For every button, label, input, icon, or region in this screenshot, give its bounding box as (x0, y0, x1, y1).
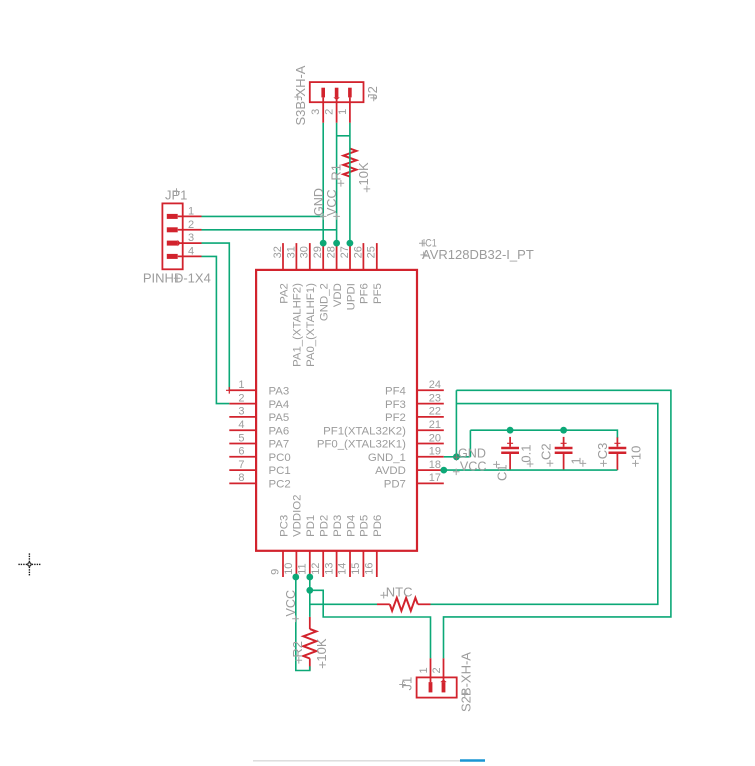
IC pin 8 (PC2) stub (229, 482, 256, 484)
IC pin 12 (PD2) stub (322, 551, 324, 577)
svg-text:S3B-XH-A: S3B-XH-A (293, 65, 308, 125)
IC pin 5 (PA7) stub (229, 443, 256, 445)
wire sense net to J1.1 (310, 590, 431, 658)
svg-text:30: 30 (299, 246, 311, 258)
svg-text:PA0_(XTALHF1): PA0_(XTALHF1) (305, 283, 317, 367)
svg-text:R2: R2 (290, 641, 305, 658)
JP1 pin 4 contact (167, 254, 178, 259)
svg-text:VDD: VDD (332, 283, 344, 307)
origin cross C2 value (580, 460, 587, 467)
origin cross JP1 (173, 188, 180, 195)
svg-text:VCC: VCC (460, 460, 487, 474)
svg-text:16: 16 (364, 563, 376, 575)
svg-text:4: 4 (188, 245, 194, 257)
wire capacitor GND top rail (470, 430, 617, 437)
svg-text:9: 9 (270, 569, 282, 575)
svg-text:3: 3 (310, 109, 322, 115)
svg-text:1: 1 (188, 205, 194, 217)
svg-text:2: 2 (431, 667, 443, 673)
IC pin 13 (PD3) stub (336, 551, 338, 577)
junction dot VCC at pin18 (440, 467, 447, 474)
svg-text:NTC: NTC (386, 584, 413, 599)
JP1 pin 4 stub (178, 255, 202, 257)
svg-text:28: 28 (326, 246, 338, 258)
origin cross VCC pin10 (292, 616, 299, 623)
NTC left lead (377, 603, 390, 605)
IC pin 3 (PA5) stub (229, 416, 256, 418)
capacitor C3 bottom lead (616, 454, 618, 470)
junction dot C1 top (507, 427, 514, 434)
svg-text:PC2: PC2 (269, 479, 291, 491)
origin cross R2 10K (319, 662, 326, 669)
origin cross C2 (547, 460, 554, 467)
wire VCC J2.2 to IC pin28 (336, 123, 338, 243)
svg-text:1: 1 (238, 379, 244, 391)
IC pin 23 (PF3) stub (417, 403, 444, 405)
IC pin 6 (PC0) stub (229, 456, 256, 458)
JP1 pin 2 contact (167, 227, 178, 232)
capacitor C2 bottom lead (563, 454, 565, 470)
JP1 pin 2 stub (178, 229, 202, 231)
origin cross value (420, 252, 427, 259)
resistor R2 bottom lead (309, 658, 311, 670)
J2 pin 2 contact (335, 88, 339, 98)
svg-text:20: 20 (429, 432, 441, 444)
origin cross R2 (296, 657, 303, 664)
svg-text:PC1: PC1 (269, 465, 291, 477)
svg-text:3: 3 (188, 232, 194, 244)
IC pin 7 (PC1) stub (229, 469, 256, 471)
svg-text:PA7: PA7 (269, 439, 290, 451)
IC pin 29 (GND_2) stub (322, 243, 324, 270)
svg-text:PD7: PD7 (384, 479, 406, 491)
svg-text:PF3: PF3 (385, 399, 406, 411)
svg-text:PD4: PD4 (345, 515, 357, 537)
svg-text:8: 8 (238, 472, 244, 484)
wire GND inner loop to NTC right (431, 404, 658, 605)
JP1 pin 1 stub (178, 215, 202, 217)
svg-text:S2B-XH-A: S2B-XH-A (459, 652, 474, 712)
svg-text:PC3: PC3 (278, 515, 290, 537)
connector JP1 body PINHD-1X4 (162, 203, 182, 269)
svg-text:VDDIO2: VDDIO2 (292, 494, 304, 536)
wire IC pin19 GND stub extension (444, 456, 471, 458)
capacitor C2 top lead (563, 437, 565, 447)
svg-text:PF5: PF5 (372, 283, 384, 304)
IC pin 31 (PA1_(XTALHF2)) stub (295, 243, 297, 270)
svg-text:3: 3 (238, 406, 244, 418)
IC pin 21 (PF1(XTAL32K2)) stub (417, 429, 444, 431)
IC pin 25 (PF5) stub (376, 243, 378, 270)
svg-text:10: 10 (628, 446, 643, 460)
wire riser to capacitor top rail (469, 430, 471, 457)
IC pin 2 (PA4) stub (229, 403, 256, 405)
svg-text:GND: GND (312, 188, 326, 216)
wire GND J2.3 to IC pin29 (322, 123, 324, 243)
IC pin 18 (AVDD) stub (417, 469, 444, 471)
svg-text:11: 11 (297, 563, 309, 574)
junction dot GND at IC pin29 (320, 240, 327, 247)
IC pin 14 (PD4) stub (349, 551, 351, 577)
origin cross C1 (493, 461, 500, 468)
origin cross IC1 (419, 240, 426, 247)
svg-text:7: 7 (238, 459, 244, 471)
svg-text:31: 31 (285, 246, 297, 258)
JP1 pin 3 stub (178, 242, 202, 244)
IC pin 24 (PF4) stub (417, 389, 444, 391)
IC pin 26 (PF6) stub (362, 243, 364, 270)
JP1 pin 1 contact (167, 214, 178, 219)
origin cross C1 value (527, 461, 534, 468)
J1 pin 2 contact (442, 682, 446, 692)
svg-text:UPDI: UPDI (345, 283, 357, 310)
IC pin 10 (VDDIO2) stub (295, 551, 297, 577)
resistor R1 (343, 149, 356, 177)
svg-text:PD2: PD2 (319, 515, 331, 537)
svg-text:24: 24 (429, 379, 441, 391)
junction dot sense branch (306, 587, 313, 594)
junction dot GND at pin19 (453, 453, 460, 460)
wire GND riser up (455, 390, 457, 457)
origin cross C3 (600, 460, 607, 467)
svg-text:26: 26 (352, 246, 364, 258)
capacitor C2 pin cross (561, 440, 567, 446)
capacitor C3 plates (609, 447, 627, 450)
capacitor C2 plates (555, 447, 573, 450)
origin cross GND supply over dot (453, 454, 460, 461)
NTC right lead (418, 603, 431, 605)
IC pin1 endpoint cross (226, 387, 233, 394)
svg-text:22: 22 (429, 406, 441, 418)
wire JP1.4 to IC pin2 (202, 256, 230, 403)
svg-text:PD5: PD5 (359, 515, 371, 537)
junction dot at IC pin11 (306, 574, 313, 581)
wire GND outer loop to J1.2 (444, 390, 671, 658)
svg-text:PA2: PA2 (278, 283, 290, 304)
svg-text:10K: 10K (314, 638, 329, 661)
JP1 pin 3 contact (167, 241, 178, 246)
IC pin 27 (UPDI) stub (349, 243, 351, 270)
IC pin 1 (PA3) stub (229, 389, 256, 391)
origin cross R1 10K (364, 186, 371, 193)
svg-text:GND: GND (458, 446, 486, 460)
wire UPDI J2.1 through R1 to IC pin27 (349, 123, 351, 243)
svg-text:PC0: PC0 (269, 452, 291, 464)
IC pin 30 (PA0_(XTALHF1)) stub (309, 243, 311, 270)
svg-text:PD6: PD6 (372, 515, 384, 537)
svg-text:VCC: VCC (284, 590, 298, 617)
IC pin 15 (PD5) stub (362, 551, 364, 577)
J2 pin 3 stub (322, 97, 324, 122)
wire JP1.1 to GND net (202, 215, 324, 217)
svg-text:4: 4 (238, 419, 244, 431)
junction dot C2 top (560, 427, 567, 434)
svg-text:PA3: PA3 (269, 385, 290, 397)
IC pin 19 (GND_1) stub (417, 456, 444, 458)
origin cross GND (320, 213, 327, 220)
svg-text:PF4: PF4 (385, 385, 406, 397)
origin cross S2B-XH-A (462, 690, 469, 697)
J2 pin 2 stub (336, 97, 338, 122)
svg-text:23: 23 (429, 392, 441, 404)
capacitor C3 top lead (616, 437, 618, 447)
svg-text:C3: C3 (595, 443, 610, 460)
svg-text:VCC: VCC (325, 189, 339, 216)
capacitor C3 pin cross (614, 440, 620, 446)
origin cross C3 value (632, 460, 639, 467)
svg-text:R1: R1 (329, 164, 344, 181)
J2 pin 1 contact (348, 88, 352, 98)
svg-text:2: 2 (238, 392, 244, 404)
wire sense net to NTC left (310, 603, 377, 605)
svg-text:PF0_(XTAL32K1): PF0_(XTAL32K1) (317, 439, 406, 451)
capacitor C1 top lead (509, 437, 511, 447)
svg-text:PF2: PF2 (385, 412, 406, 424)
J1 pin 1 contact (429, 682, 433, 692)
svg-text:PF6: PF6 (359, 283, 371, 304)
scrollbar track (253, 760, 460, 762)
svg-text:17: 17 (429, 472, 441, 484)
svg-text:PD1: PD1 (305, 515, 317, 537)
svg-text:GND_2: GND_2 (319, 283, 331, 321)
junction dot at IC pin10 (292, 574, 299, 581)
IC pin 22 (PF2) stub (417, 416, 444, 418)
J1 pin 1 stub (430, 658, 432, 682)
origin cross R1 (338, 180, 345, 187)
svg-text:C2: C2 (538, 443, 553, 460)
svg-text:PA1_(XTALHF2): PA1_(XTALHF2) (292, 283, 304, 367)
wire JP1.2 to VCC net (202, 229, 337, 231)
IC pin 11 (PD1) stub (309, 551, 311, 577)
svg-text:PA6: PA6 (269, 425, 290, 437)
svg-text:10K: 10K (356, 162, 371, 185)
wire VCC from IC pin10 to R2 bottom (296, 577, 310, 671)
svg-text:GND_1: GND_1 (368, 452, 406, 464)
svg-text:PA5: PA5 (269, 412, 290, 424)
IC pin 16 (PD6) stub (376, 551, 378, 577)
wire JP1.3 to IC pin1 (202, 243, 230, 390)
svg-text:32: 32 (272, 246, 284, 258)
origin cross VCC rail (453, 469, 460, 476)
schematic origin marker dotted cross (18, 553, 40, 575)
svg-text:J1: J1 (400, 677, 415, 691)
wire jog VCC to R1 top (337, 135, 350, 137)
IC pin 32 (PA2) stub (282, 243, 284, 270)
origin cross PINHD-1X4 (174, 275, 181, 282)
svg-text:1: 1 (418, 667, 430, 673)
svg-text:27: 27 (339, 246, 351, 258)
svg-text:5: 5 (238, 432, 244, 444)
svg-text:AVR128DB32-I_PT: AVR128DB32-I_PT (422, 247, 534, 262)
origin cross NTC (380, 592, 387, 599)
IC pin 28 (VDD) stub (336, 243, 338, 270)
svg-text:18: 18 (429, 459, 441, 471)
svg-text:12: 12 (310, 563, 322, 575)
svg-text:AVDD: AVDD (375, 465, 406, 477)
svg-text:21: 21 (429, 419, 441, 431)
capacitor C1 bottom lead (509, 454, 511, 470)
origin cross J1 (399, 681, 406, 688)
IC pin 4 (PA6) stub (229, 429, 256, 431)
scrollbar thumb (460, 759, 485, 762)
svg-text:PF1(XTAL32K2): PF1(XTAL32K2) (323, 425, 406, 437)
resistor R2 top lead (309, 617, 311, 629)
capacitor C1 plates (501, 447, 519, 450)
connector J2 body S3B-XH-A (310, 82, 364, 102)
J2 pin 3 contact (321, 88, 325, 98)
capacitor C1 pin cross (507, 440, 513, 446)
svg-text:10: 10 (283, 563, 295, 575)
IC pin 9 (PC3) stub (282, 551, 284, 577)
IC pin 20 (PF0_(XTAL32K1)) stub (417, 443, 444, 445)
resistor NTC (390, 598, 418, 611)
svg-text:25: 25 (366, 246, 378, 258)
wire capacitor VCC bottom rail (444, 469, 618, 471)
wire IC pin11 to R2 top (309, 577, 311, 617)
connector J1 body S2B-XH-A (417, 677, 457, 697)
svg-text:PD3: PD3 (332, 515, 344, 537)
svg-text:1: 1 (337, 109, 349, 115)
origin cross S3B-XH-A (294, 94, 301, 101)
origin cross J2 (370, 95, 377, 102)
junction dot VCC at IC pin28 (333, 240, 340, 247)
svg-text:15: 15 (350, 563, 362, 575)
svg-text:13: 13 (323, 563, 335, 575)
svg-text:PA4: PA4 (269, 399, 290, 411)
svg-text:2: 2 (188, 219, 194, 231)
svg-text:2: 2 (324, 109, 336, 115)
IC pin 17 (PD7) stub (417, 482, 444, 484)
J1 pin 2 stub (443, 658, 445, 682)
J2 pin 1 stub (349, 97, 351, 122)
svg-text:6: 6 (238, 446, 244, 458)
svg-text:29: 29 (312, 246, 324, 258)
svg-text:19: 19 (429, 446, 441, 458)
resistor R2 (303, 629, 316, 659)
IC1 AVR128DB32 body (256, 270, 417, 551)
junction dot UPDI at IC pin27 (347, 240, 354, 247)
svg-text:14: 14 (337, 563, 349, 575)
svg-text:0.1: 0.1 (519, 445, 534, 463)
origin cross VCC (333, 213, 340, 220)
